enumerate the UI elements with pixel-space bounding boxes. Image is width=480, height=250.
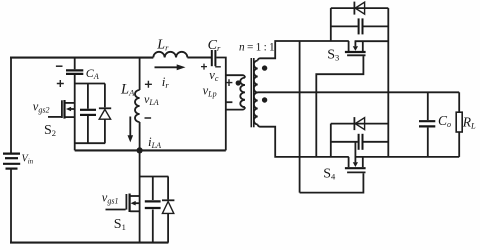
wire S2 drain/source rail	[74, 58, 76, 151]
polarity dot secondary top	[262, 65, 267, 70]
label vgs2	[33, 99, 50, 114]
wire S4 gate to secondary top	[300, 173, 364, 192]
label CA	[86, 66, 99, 81]
minus sign primary	[225, 101, 232, 103]
wire left rail upper	[10, 58, 12, 153]
capacitor Cr	[212, 50, 216, 66]
label iLA	[148, 134, 161, 150]
label Cr	[208, 38, 221, 53]
diode S2 body	[99, 84, 111, 144]
label vLA	[144, 92, 159, 107]
svg-text:Lr: Lr	[156, 38, 169, 53]
mosfet S4	[345, 142, 366, 173]
label S1	[114, 217, 126, 232]
svg-text:S2: S2	[44, 123, 56, 138]
diode D4	[331, 117, 389, 130]
capacitor S1 snubber	[145, 177, 161, 243]
wire left rail lower	[10, 169, 12, 243]
label S4	[323, 166, 336, 181]
wire D4 C4 left vertical	[330, 124, 332, 157]
plus sign Cr	[201, 64, 207, 70]
label vLp	[203, 84, 217, 99]
plus sign LA	[145, 81, 152, 88]
wire right rail	[387, 8, 389, 157]
mosfet S1	[106, 194, 140, 213]
wire secondary bottom to S4 drain rail	[258, 125, 349, 157]
wire Cr right	[216, 58, 225, 151]
svg-text:n=1:1: n=1:1	[239, 41, 277, 53]
transformer core	[251, 58, 254, 127]
inductor Lr	[153, 52, 187, 58]
wire S3 box left vertical	[299, 41, 301, 193]
wire output minus rail	[355, 156, 460, 158]
transformer primary bottom wire	[226, 107, 245, 109]
svg-text:S1: S1	[114, 217, 126, 232]
plus sign CA	[57, 80, 64, 87]
wire S1 snubber top	[140, 176, 169, 178]
current arrow ir	[155, 64, 186, 70]
transformer primary top wire	[226, 75, 245, 77]
wire S3 gate to secondary bottom	[316, 56, 363, 157]
svg-text:ir: ir	[162, 74, 170, 90]
svg-text:LA: LA	[120, 81, 135, 97]
wire bottom rail	[10, 242, 168, 244]
svg-text:vLA: vLA	[144, 92, 159, 107]
wire S2 snubber top	[75, 83, 105, 85]
capacitor S2 snubber	[80, 84, 96, 144]
inductor LA	[135, 90, 140, 122]
minus sign CA	[56, 65, 63, 67]
label LA	[120, 81, 135, 97]
capacitor C4	[331, 134, 389, 150]
svg-text:Co: Co	[438, 113, 451, 129]
battery Vin	[3, 154, 20, 169]
svg-text:RL: RL	[462, 114, 476, 130]
wire secondary top to S3 drain rail	[258, 41, 349, 61]
label Lr	[156, 38, 169, 53]
label n=1:1	[239, 41, 277, 53]
wire top rail	[10, 57, 153, 59]
polarity dot primary	[236, 80, 241, 85]
svg-text:iLA: iLA	[148, 134, 161, 150]
svg-text:vgs1: vgs1	[102, 191, 119, 206]
label Vin	[22, 154, 34, 166]
svg-text:S4: S4	[323, 166, 336, 181]
diode D3	[331, 2, 389, 15]
label RL	[462, 114, 476, 130]
minus sign LA	[145, 117, 152, 119]
mosfet S3	[345, 41, 388, 55]
polarity dot secondary mid	[262, 97, 267, 102]
label vc	[209, 68, 219, 83]
minus sign Cr	[215, 66, 221, 68]
wire LA branch lower	[139, 122, 141, 243]
transformer primary winding	[240, 78, 245, 108]
svg-text:vc: vc	[209, 68, 219, 83]
wire output plus rail	[258, 91, 460, 93]
wire mid rail	[75, 149, 226, 151]
wire Lr to Cr	[187, 56, 211, 58]
label ir	[162, 74, 170, 90]
svg-text:vLp: vLp	[203, 84, 217, 99]
svg-text:Vin: Vin	[22, 154, 34, 166]
current arrow iLA	[128, 117, 134, 143]
svg-text:Cr: Cr	[208, 38, 221, 53]
svg-text:vgs2: vgs2	[33, 99, 50, 114]
plus sign primary	[226, 79, 233, 86]
label S3	[327, 47, 339, 62]
capacitor C3	[331, 18, 389, 34]
transformer secondary winding	[254, 61, 258, 125]
capacitor Co	[419, 92, 435, 157]
wire S2 snubber bottom	[75, 142, 106, 144]
diode S1 body	[162, 177, 174, 243]
svg-text:CA: CA	[86, 66, 99, 81]
resistor RL	[456, 92, 462, 157]
label S2	[44, 123, 56, 138]
wire LA branch top	[139, 58, 141, 91]
capacitor CA	[66, 70, 83, 74]
svg-text:S3: S3	[327, 47, 339, 62]
label Co	[438, 113, 451, 129]
node A junction dot	[137, 147, 143, 153]
mosfet S2	[48, 100, 75, 119]
wire D3 C3 left vertical	[330, 8, 332, 41]
label vgs1	[102, 191, 119, 206]
